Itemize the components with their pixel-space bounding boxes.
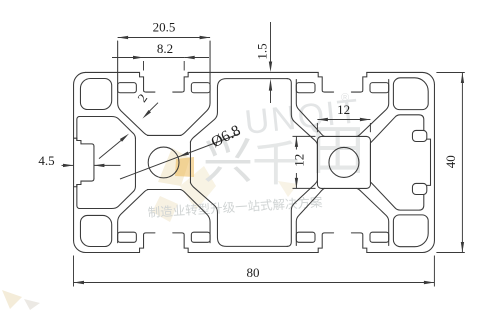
dim 80 xyxy=(74,282,435,284)
left core left face xyxy=(134,139,136,187)
T-slot top-right slot neck/step at x=322 xyxy=(318,72,333,92)
T-slot bottom-right slot neck/step at x=363 xyxy=(351,233,366,253)
dim 4.5 xyxy=(62,164,74,166)
cavity V1 top-left xyxy=(80,79,111,110)
S-void right wall + SE web wall1 xyxy=(180,190,210,243)
T-slot top-left slot pocket box at x=201 xyxy=(191,83,210,93)
hole right Phi6.8 xyxy=(329,147,359,177)
right core left face segment xyxy=(316,144,318,181)
left core top face xyxy=(148,134,182,136)
T-slot bottom-left slot neck/step at x=144 xyxy=(140,233,155,253)
T-slot bottom-left slot neck/step at x=184 xyxy=(173,233,188,253)
svg-text:40: 40 xyxy=(443,155,458,168)
N-void left wall + NW web wall1 xyxy=(118,41,149,135)
middle-void floor right + right SW web wall2 xyxy=(287,180,317,246)
T-slot top-left slot pocket box at x=127 xyxy=(118,83,137,93)
right-end wall inner face xyxy=(427,139,431,185)
svg-text:12: 12 xyxy=(291,154,306,167)
dim 8.2 xyxy=(112,57,144,59)
T-slot top-right slot pocket box at x=306 xyxy=(296,83,315,93)
svg-text:20.5: 20.5 xyxy=(153,20,176,35)
left slot lower lip inner wall xyxy=(77,184,80,208)
T-slot top-left slot neck/step at x=144 xyxy=(140,72,155,92)
slot2 N-void left wall + right NW web wall1 xyxy=(296,80,324,137)
dim 40 xyxy=(461,73,463,253)
right-end lower pocket xyxy=(412,183,426,194)
wire outer top face left xyxy=(86,71,140,73)
left core bottom face xyxy=(148,189,182,191)
cavity V3 top-right xyxy=(393,78,428,110)
W-void top line + NW web wall2 xyxy=(79,117,136,139)
svg-text:田: 田 xyxy=(311,121,365,181)
hole left Phi6.8 xyxy=(148,147,179,178)
cavity V2 bottom-left xyxy=(80,215,111,246)
slot2 S-void right wall + right SE web wall1 xyxy=(357,188,389,245)
wire outer right face xyxy=(422,84,434,252)
cavity V4 bottom-right xyxy=(393,215,428,247)
left slot upper lip inner wall xyxy=(77,117,80,141)
svg-text:12: 12 xyxy=(337,102,350,117)
right core square xyxy=(317,136,370,188)
right SE web wall2 + right-end shelf xyxy=(370,182,423,210)
T-slot bottom-left slot pocket box at x=201 xyxy=(191,232,210,242)
svg-text:1.5: 1.5 xyxy=(255,43,270,59)
left core right face xyxy=(189,142,191,184)
dim 20.5 xyxy=(118,37,211,39)
svg-text:4.5: 4.5 xyxy=(38,153,54,168)
middle-void ceiling + NE web wall2 xyxy=(190,79,287,143)
dim 12 vertical xyxy=(295,136,297,149)
N-void right wall + NE web wall1 xyxy=(180,41,210,135)
dim 1.5 xyxy=(270,22,272,63)
T-slot bottom-right slot pocket box at x=306 xyxy=(296,232,315,242)
middle-void ceiling right + right NW web wall2 xyxy=(287,79,317,145)
right-end upper pocket xyxy=(412,130,426,141)
dim 2 xyxy=(146,103,158,115)
T-slot top-right slot neck/step at x=363 xyxy=(351,72,366,92)
wire outer bottom face right xyxy=(367,252,423,254)
wire outer top face right + corner xyxy=(367,72,435,84)
S-void left wall + SW web wall1 xyxy=(118,190,149,243)
T-slot bottom-left slot pocket box at x=127 xyxy=(118,232,137,242)
T-slot bottom-right slot neck/step at x=322 xyxy=(318,233,333,253)
T-slot top-right slot pocket box at x=379 xyxy=(370,83,389,93)
svg-text:80: 80 xyxy=(247,265,260,280)
W-void bottom line + SW web wall2 xyxy=(79,186,136,208)
slot2 N-void right wall + right NE web wall1 xyxy=(357,80,389,137)
svg-text:8.2: 8.2 xyxy=(157,41,173,56)
dim phi6.8 leader xyxy=(120,134,240,180)
left slot upper lip steps xyxy=(74,138,94,146)
right core right face segment xyxy=(369,143,371,181)
dim 8.2 ext xyxy=(143,61,145,71)
right NE web wall2 + right-end shelf xyxy=(370,115,423,143)
middle-void floor + SE web wall2 xyxy=(190,182,287,246)
wire outer bottom face middle xyxy=(188,252,318,254)
left slot lower lip steps xyxy=(74,179,94,187)
T-slot bottom-right slot pocket box at x=379 xyxy=(370,232,389,242)
wire outer top face middle xyxy=(188,71,318,73)
wire outer bottom face left + corner xyxy=(74,241,140,253)
watermark: logo shapes and ghost text xyxy=(158,148,190,186)
slot2 S-void left wall + right SW web wall1 xyxy=(296,188,324,245)
T-slot top-left slot neck/step at x=184 xyxy=(173,72,188,92)
dim 12 horizontal xyxy=(317,119,370,121)
left slot root line xyxy=(93,146,95,178)
wire outer left face + corner xyxy=(74,72,86,240)
